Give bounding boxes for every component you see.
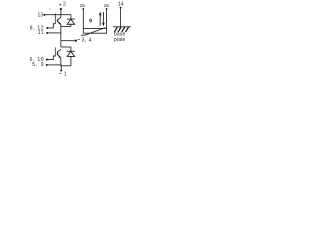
- svg-text:14: 14: [118, 1, 124, 7]
- node pin11 dot: [46, 32, 48, 34]
- svg-text:13: 13: [37, 13, 43, 19]
- transistor T1 emitter diagonal: [58, 22, 61, 24]
- wire pin16 vertical: [106, 10, 108, 29]
- transistor T2 body bar: [57, 51, 59, 55]
- svg-text:+: +: [59, 3, 62, 9]
- transistor T2 collector diagonal: [58, 49, 61, 51]
- wire G2 step (pins 6,10): [48, 56, 56, 60]
- svg-text:11: 11: [38, 30, 44, 36]
- ground hatch 1: [114, 27, 117, 32]
- wire E2 to pin1: [60, 65, 62, 70]
- transistor T1 collector diagonal: [58, 17, 61, 19]
- svg-text:3, 4: 3, 4: [82, 37, 92, 43]
- transistor T2 emitter diagonal: [58, 55, 61, 58]
- svg-text:16: 16: [104, 3, 110, 9]
- node AC terminal dot (pins 3,4): [75, 39, 77, 41]
- transistor T1 emitter arrow: [58, 22, 60, 24]
- thermistor up arrow: [99, 14, 101, 26]
- svg-text:plate: plate: [114, 37, 126, 43]
- node pins 8,12 dot: [46, 27, 48, 29]
- wire emitter T1 vertical down to mid rail: [60, 24, 62, 26]
- diode D2: [70, 47, 72, 51]
- diode D1: [70, 15, 72, 19]
- ground chassis line: [113, 26, 131, 28]
- thermistor strike: [81, 28, 105, 36]
- wire E1 aux (pin 11): [48, 32, 61, 34]
- node pin13 terminal dot: [43, 14, 45, 16]
- node pin16 dot: [106, 8, 108, 10]
- transistor T1 gate bar: [54, 14, 56, 24]
- wire center column mid rail to output to lower rail: [60, 26, 62, 47]
- node pin15 dot: [82, 8, 84, 10]
- thermistor body box: [83, 28, 106, 33]
- wire AC output: [61, 40, 76, 42]
- thermistor down arrow: [102, 12, 104, 23]
- wire top rail C1: [61, 14, 71, 16]
- ground hatch 2: [118, 27, 121, 32]
- svg-text:1: 1: [64, 72, 67, 78]
- wire mid rail: [61, 25, 71, 27]
- pin 14 dot: [120, 7, 122, 9]
- svg-text:5, 9: 5, 9: [32, 62, 44, 68]
- wire pin14 vertical: [120, 9, 122, 27]
- svg-text:2: 2: [63, 2, 66, 8]
- wire C1-aux (pin 13) horizontal: [45, 14, 61, 16]
- transistor T2 gate bar: [54, 47, 56, 56]
- wire pin2 vertical: [60, 10, 62, 17]
- pin1 minus prefix: [60, 72, 62, 74]
- node pins 6,10 dot: [46, 59, 48, 61]
- wire emitter rail T2: [61, 65, 71, 67]
- ground hatch 4: [126, 27, 129, 32]
- AC tilde prefix: [78, 38, 80, 40]
- wire emitter T2 vertical: [60, 58, 62, 66]
- wire E2 aux (pins 5,9): [48, 64, 62, 66]
- node C1 terminal dot (pin 2): [60, 8, 62, 10]
- transistor T1 body bar: [57, 19, 59, 22]
- wire G1 step (pins 8,12): [48, 24, 55, 28]
- ground hatch 3: [122, 27, 125, 32]
- node pin1 terminal dot: [60, 69, 62, 71]
- svg-text:15: 15: [80, 3, 86, 9]
- wire pin15 vertical: [82, 10, 84, 29]
- wire lower rail C2: [61, 46, 71, 48]
- faint artifact dot: [49, 8, 51, 10]
- transistor T2 emitter arrow: [58, 56, 60, 58]
- svg-text:θ: θ: [89, 19, 92, 25]
- node pins 5,9 dot: [46, 64, 48, 66]
